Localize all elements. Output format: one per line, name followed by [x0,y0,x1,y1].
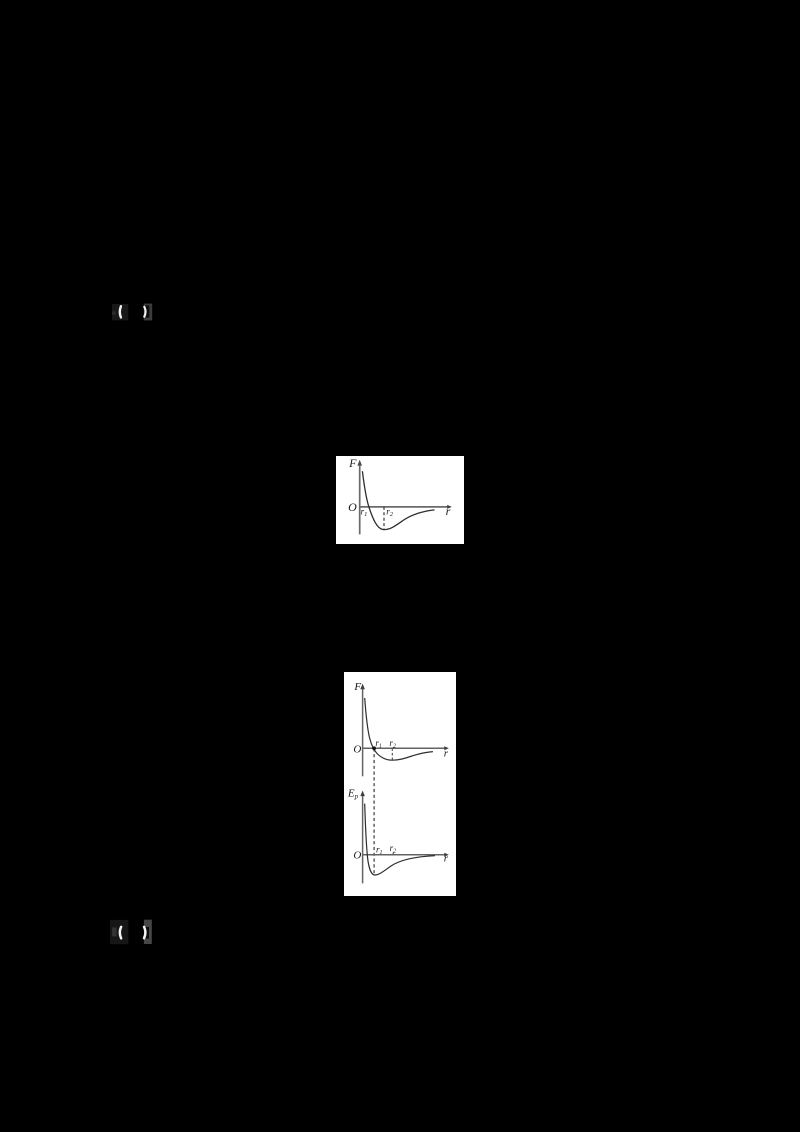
top graph F axis (vertical) [360,684,365,777]
bottom Ep curve [365,804,435,875]
svg-text:F: F [348,456,357,470]
small dashed tick at r2 (bottom graph) [392,852,394,854]
bracket pair 1 (answer blank brackets, row 1) [108,298,164,326]
svg-text:F: F [353,681,361,693]
long dashed line from r1 down to Ep minimum [373,748,375,873]
right bracket block [144,304,153,321]
svg-text:O: O [353,850,361,862]
left bracket block [112,304,128,320]
bottom graph r axis (horizontal) [363,853,449,857]
top graph r axis (horizontal) [363,746,449,750]
right bracket block [144,920,152,944]
svg-text:r: r [444,748,449,760]
bracket pair 2 (answer blank brackets, row 2) [106,916,162,948]
left bracket block [110,920,128,944]
top F curve [365,698,433,760]
F curve [362,471,434,529]
svg-text:O: O [353,743,361,755]
bottom graph Ep axis (vertical) [360,791,365,884]
short dashed line at r2 (top graph) [391,748,393,760]
figure 2: F-r and Ep-r stacked graphs [344,672,456,896]
svg-text:r: r [446,504,451,518]
white figure background [336,456,464,544]
svg-text:r: r [444,853,449,865]
white figure background [344,672,456,896]
F axis (vertical) [357,460,362,535]
r axis (horizontal) [360,505,452,509]
dashed line at r2 [383,507,385,530]
dot at r1 crossing [372,746,376,750]
svg-text:O: O [348,500,357,514]
figure 1: F-r graph [336,456,464,544]
